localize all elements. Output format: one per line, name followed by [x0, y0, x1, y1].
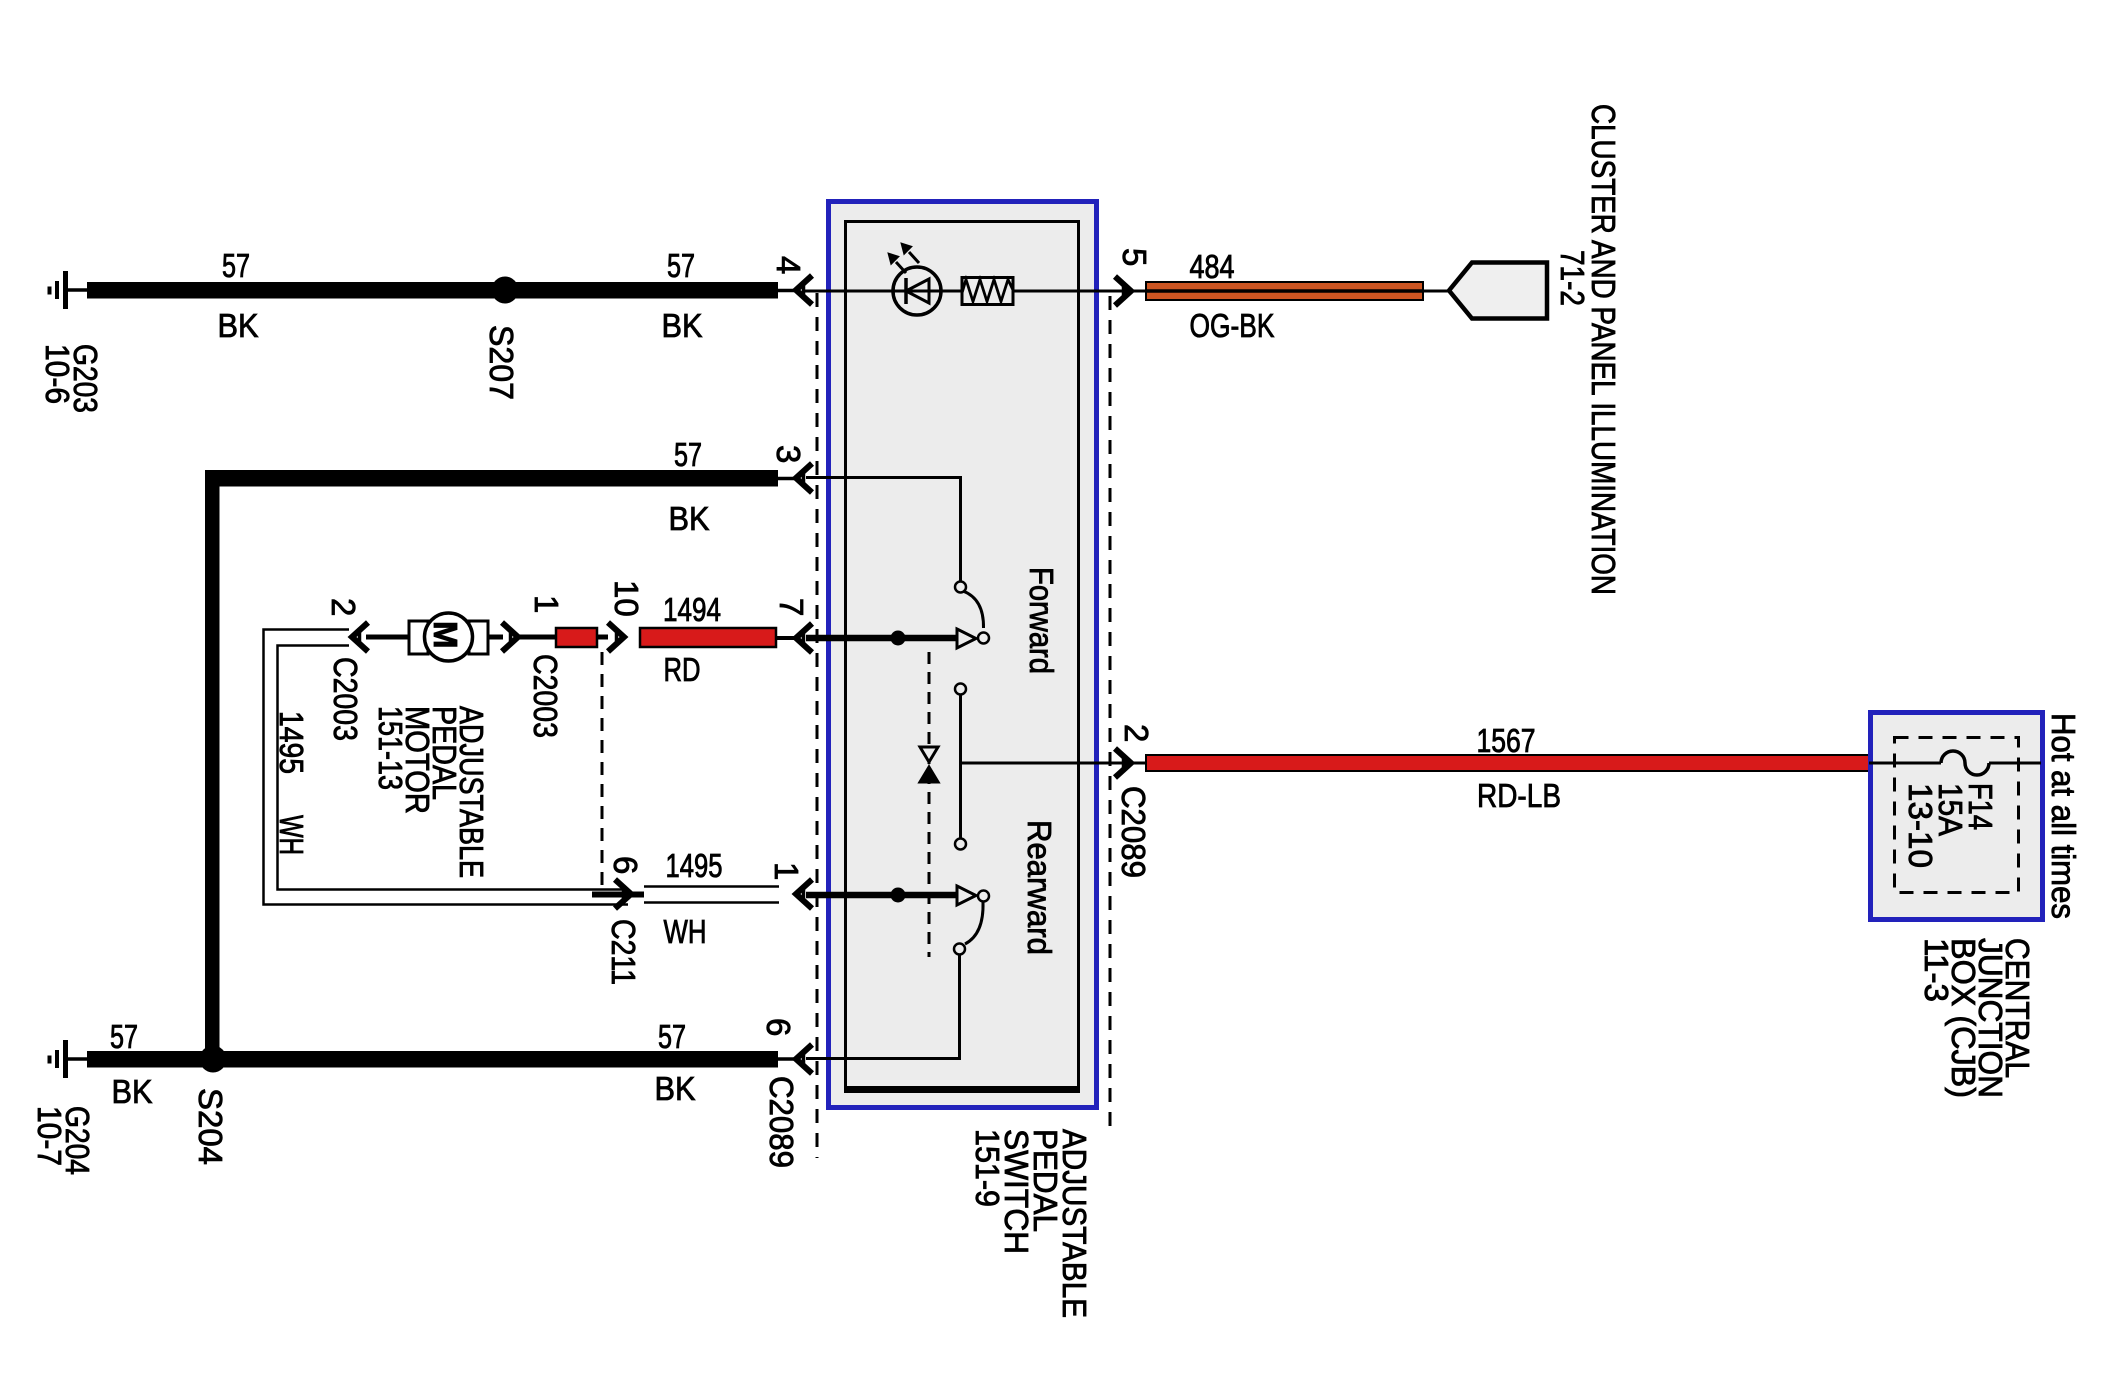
svg-text:C2089: C2089 — [763, 1076, 800, 1168]
rearward switch blade arc — [965, 902, 983, 944]
svg-text:57: 57 — [658, 1018, 686, 1055]
rearward bottom terminal — [954, 944, 965, 955]
svg-text:151-9: 151-9 — [969, 1129, 1006, 1207]
wire pin4 to LED — [802, 290, 962, 293]
svg-text:57: 57 — [222, 247, 250, 284]
pin 3 interior wire — [806, 478, 961, 582]
LED arrows — [888, 243, 919, 273]
svg-text:BK: BK — [669, 500, 710, 537]
wire 57 BK from G203 to pin 4 — [87, 282, 778, 299]
red wire segment (1494 RD) — [556, 628, 597, 647]
pin 6 arrow — [796, 1045, 812, 1074]
svg-text:2: 2 — [1118, 724, 1155, 742]
wire 1494 RD — [640, 628, 776, 647]
wire to C211 arrow — [597, 635, 608, 640]
svg-text:M: M — [427, 621, 464, 649]
C211 pin 10 arrow — [608, 623, 624, 652]
off-page connector (cluster illumination) — [1449, 263, 1547, 319]
wire motor to pin 1 — [488, 635, 503, 640]
motor connector pin 2 arrow — [352, 623, 368, 652]
svg-text:151-13: 151-13 — [372, 706, 409, 790]
wire resistor to pin 5 — [1013, 290, 1146, 293]
svg-text:S204: S204 — [192, 1088, 229, 1165]
switch inner box — [846, 222, 1079, 1092]
motor connector pin 1 arrow — [502, 623, 518, 652]
svg-text:6: 6 — [760, 1018, 797, 1036]
C211 connector dashed line — [601, 652, 604, 886]
ground G204 — [50, 1040, 89, 1078]
wire 1495 WH (C211 to pin 1) — [644, 887, 779, 903]
wire 484 OG-BK — [1146, 282, 1423, 300]
svg-text:3: 3 — [770, 445, 807, 463]
svg-text:57: 57 — [667, 247, 695, 284]
C211 pin 6 arrow tail — [592, 892, 644, 898]
svg-text:BK: BK — [112, 1073, 153, 1110]
svg-text:57: 57 — [110, 1018, 138, 1055]
rearward to pin 6 wire — [806, 955, 960, 1059]
svg-text:BK: BK — [655, 1070, 696, 1107]
junction (pin 7) — [891, 631, 906, 646]
wire 1567 RD-LB — [1146, 755, 1869, 771]
svg-text:C2003: C2003 — [327, 657, 364, 741]
pin 1 arrow — [796, 880, 812, 909]
pin 2 arrow — [1115, 749, 1131, 778]
pin 7 interior wire — [806, 635, 956, 642]
pin 7 arrow — [796, 624, 812, 653]
switch inner box bottom thick edge — [844, 1086, 1080, 1093]
svg-text:4: 4 — [770, 256, 807, 274]
svg-text:57: 57 — [674, 436, 702, 473]
pin 1 interior wire — [806, 892, 956, 899]
svg-text:1495: 1495 — [666, 847, 723, 884]
svg-text:10-7: 10-7 — [31, 1106, 68, 1166]
middle terminal top circle — [955, 684, 966, 695]
resistor (illumination) — [962, 278, 1013, 305]
svg-text:1495: 1495 — [273, 711, 310, 774]
svg-text:6: 6 — [607, 856, 644, 874]
mechanical link bowtie — [920, 747, 938, 782]
svg-text:RD-LB: RD-LB — [1477, 777, 1561, 814]
svg-text:Forward: Forward — [1023, 567, 1060, 674]
svg-text:10: 10 — [608, 580, 645, 617]
svg-text:Hot at all times: Hot at all times — [2045, 713, 2082, 919]
svg-text:BK: BK — [662, 307, 703, 344]
rearward contact circle — [978, 891, 989, 902]
splice S207 — [492, 277, 519, 304]
svg-text:5: 5 — [1116, 248, 1153, 266]
svg-text:BK: BK — [218, 307, 259, 344]
pin 3 arrow — [796, 464, 812, 493]
forward switch blade arc — [963, 591, 984, 628]
ground G203 — [50, 271, 89, 309]
adjustable pedal switch box (blue) — [829, 202, 1097, 1108]
wire 57 BK to pin 3 (horizontal) — [205, 470, 778, 487]
pin 5 arrow — [1115, 277, 1131, 306]
svg-text:OG-BK: OG-BK — [1190, 307, 1275, 344]
wire to motor — [366, 635, 410, 640]
wire from fuse — [1989, 762, 2041, 765]
junction (pin 1) — [891, 888, 906, 903]
wire 57 BK bottom — [87, 1051, 778, 1068]
svg-text:C2003: C2003 — [527, 654, 564, 738]
svg-text:7: 7 — [773, 598, 810, 616]
CJB fuse dashed box — [1895, 738, 2019, 893]
forward switch top terminal — [955, 582, 966, 593]
svg-text:13-10: 13-10 — [1902, 783, 1939, 868]
mechanical link dashed line — [928, 652, 931, 957]
svg-text:11-3: 11-3 — [1918, 938, 1955, 1002]
svg-text:RD: RD — [664, 651, 701, 688]
pin 2 interior wire — [961, 762, 1147, 765]
wire 57 BK vertical to S204 — [205, 470, 220, 1067]
wire segment C2003 to C211 — [518, 635, 557, 640]
svg-text:1567: 1567 — [1477, 722, 1536, 759]
pin 4 arrow — [796, 276, 812, 305]
adjustable pedal motor M1 — [409, 613, 488, 661]
C2089 dashed line (right) — [1109, 296, 1112, 1132]
forward contact circle — [978, 633, 989, 644]
middle terminal bottom circle — [955, 839, 966, 850]
svg-text:S207: S207 — [483, 325, 520, 400]
svg-text:Rearward: Rearward — [1021, 820, 1058, 955]
svg-text:10-6: 10-6 — [39, 344, 76, 404]
svg-text:2: 2 — [325, 598, 362, 616]
LED lamp — [893, 267, 941, 315]
central junction box (blue) — [1871, 713, 2043, 920]
svg-text:C2089: C2089 — [1115, 786, 1152, 878]
svg-text:WH: WH — [664, 913, 707, 950]
svg-text:484: 484 — [1190, 248, 1235, 285]
svg-text:C211: C211 — [605, 919, 642, 985]
C211 pin 6 arrow — [615, 880, 631, 909]
wire 1495 WH loop (motor terminal 2 to C211) — [264, 630, 629, 905]
forward contact triangle — [957, 629, 976, 648]
C2089 dashed line (left) — [816, 293, 819, 1158]
wire into fuse — [1869, 762, 1941, 765]
svg-text:WH: WH — [273, 815, 310, 855]
svg-text:1: 1 — [768, 862, 805, 880]
wire red to pin 7 — [776, 636, 795, 640]
middle vertical wire — [959, 695, 962, 838]
fuse F14 — [1941, 751, 1989, 775]
svg-text:1494: 1494 — [663, 591, 721, 628]
wire to off-page connector — [1423, 290, 1449, 293]
rearward contact triangle — [957, 886, 976, 905]
splice S204 — [200, 1046, 227, 1073]
svg-text:CLUSTER AND PANEL ILLUMINATION: CLUSTER AND PANEL ILLUMINATION — [1585, 104, 1622, 595]
svg-text:1: 1 — [528, 595, 565, 613]
